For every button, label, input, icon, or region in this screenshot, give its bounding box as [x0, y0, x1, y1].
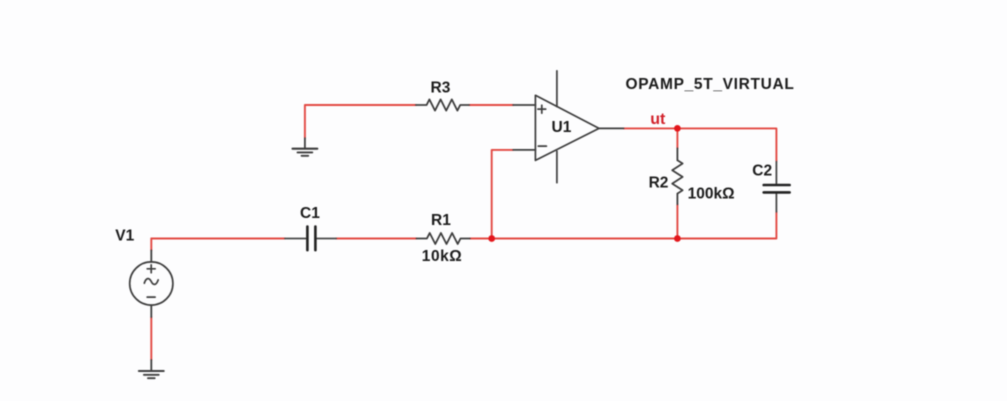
resistor R2	[672, 148, 682, 204]
node junction ut	[674, 125, 681, 132]
svg-text:10kΩ: 10kΩ	[422, 248, 463, 265]
wire V1 bottom to ground	[150, 317, 152, 360]
ground below R3 corner	[293, 138, 318, 156]
wire R2 bottom	[676, 205, 678, 239]
node junction at R1 output	[488, 235, 495, 242]
capacitor C1	[285, 227, 337, 251]
svg-text:ut: ut	[650, 111, 666, 128]
wire bottom main net	[151, 212, 776, 239]
wire op-amp output to C2 top	[624, 128, 777, 161]
resistor R1	[416, 233, 470, 244]
capacitor C2	[764, 162, 790, 213]
node junction R2 bottom	[674, 235, 681, 242]
svg-text:U1: U1	[552, 119, 572, 136]
svg-text:V1: V1	[115, 227, 134, 244]
svg-text:100kΩ: 100kΩ	[688, 186, 735, 203]
ground below V1	[139, 360, 164, 378]
wire R2 top	[676, 128, 678, 148]
svg-text:R2: R2	[649, 174, 669, 191]
svg-text:C2: C2	[752, 162, 772, 179]
svg-text:R3: R3	[431, 80, 451, 97]
wire inverting feedback net	[492, 150, 513, 239]
op-amp U1	[513, 71, 624, 183]
svg-text:R1: R1	[431, 212, 451, 229]
wire R3 ground net	[305, 105, 416, 138]
voltage source V1	[130, 250, 173, 317]
svg-text:C1: C1	[300, 205, 320, 222]
svg-text:OPAMP_5T_VIRTUAL: OPAMP_5T_VIRTUAL	[626, 76, 795, 93]
wire R3 to op-amp noninverting input	[469, 104, 513, 106]
wire V1 top	[150, 239, 152, 251]
resistor R3	[416, 99, 470, 110]
